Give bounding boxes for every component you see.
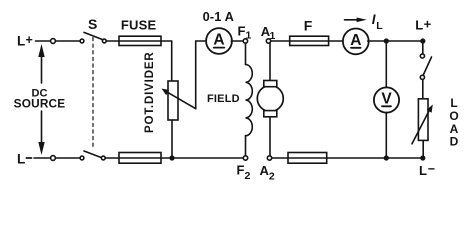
- svg-text:2: 2: [269, 171, 275, 183]
- wire fuse to pot divider: [161, 40, 172, 42]
- fuse bottom right: [288, 153, 327, 164]
- wire L- stub: [34, 157, 51, 159]
- label A2: [260, 163, 275, 182]
- wire wiper riser to ammeter: [196, 41, 207, 109]
- wire F1 to field coil: [245, 43, 247, 64]
- terminal F1: [243, 39, 247, 43]
- svg-text:F: F: [237, 163, 245, 178]
- svg-text:D: D: [450, 135, 459, 149]
- wire through fuse F: [290, 40, 329, 42]
- wire junction to voltmeter: [385, 41, 387, 88]
- switch S top pole: [80, 32, 106, 42]
- label F1: [238, 23, 252, 41]
- label IL: [372, 12, 384, 32]
- wire field coil to F2: [245, 136, 247, 156]
- junction load bottom: [420, 155, 425, 160]
- dc source arrow up: [38, 44, 44, 83]
- switch link dashed: [92, 38, 94, 150]
- svg-text:2: 2: [245, 170, 251, 182]
- wire down to pot top: [171, 41, 173, 81]
- label DC SOURCE: [14, 88, 66, 111]
- wire through top fuse: [119, 40, 161, 42]
- terminal L+ left: [51, 39, 56, 44]
- svg-text:FUSE: FUSE: [121, 17, 157, 32]
- svg-text:F: F: [304, 17, 313, 33]
- wire voltmeter to bottom rail: [385, 112, 387, 158]
- svg-text:S: S: [88, 16, 97, 32]
- svg-text:L: L: [415, 18, 423, 33]
- terminal A2: [267, 156, 271, 160]
- armature brush top: [264, 81, 277, 87]
- armature brush bottom: [264, 111, 277, 117]
- svg-text:FIELD: FIELD: [207, 93, 240, 105]
- junction voltmeter top: [384, 38, 389, 43]
- svg-text:L: L: [419, 163, 427, 178]
- load switch: [420, 54, 431, 80]
- junction voltmeter bottom: [384, 155, 389, 160]
- load arrow: [412, 105, 433, 144]
- current arrow IL: [345, 18, 367, 23]
- svg-text:+: +: [26, 33, 33, 47]
- wire switch to fuse: [106, 40, 119, 42]
- svg-text:V: V: [381, 90, 392, 107]
- terminal A1: [266, 39, 270, 43]
- fuse F top right: [290, 36, 329, 45]
- svg-text:L: L: [17, 34, 25, 49]
- field winding: [246, 65, 253, 136]
- voltmeter V: [374, 87, 399, 112]
- wire L- to switch: [55, 157, 80, 159]
- svg-text:0-1 A: 0-1 A: [203, 9, 234, 24]
- wire L+ stub: [36, 40, 51, 42]
- wire A1 to fuse F: [271, 40, 290, 42]
- svg-text:A: A: [350, 32, 361, 49]
- wire load to bottom rail: [422, 140, 424, 158]
- svg-text:+: +: [424, 17, 432, 32]
- ammeter U2 load current: [343, 29, 369, 55]
- svg-text:I: I: [372, 12, 376, 27]
- wire L+ to switch: [55, 40, 80, 42]
- load resistor: [418, 99, 428, 141]
- wire switch to load: [422, 80, 424, 99]
- label L- right: [419, 162, 435, 178]
- svg-text:L: L: [17, 151, 25, 166]
- armature M circle: [257, 86, 283, 112]
- pot wiper arrow: [162, 89, 196, 109]
- wire L+ down to switch: [422, 41, 424, 54]
- svg-text:F: F: [238, 23, 246, 38]
- wire bottom rail switch to F2: [105, 157, 243, 159]
- junction pot-bottom rail: [169, 155, 174, 160]
- label F2: [237, 163, 251, 182]
- wire pot bottom: [171, 120, 173, 158]
- terminal L- left: [51, 156, 56, 161]
- terminal F2: [243, 156, 247, 160]
- label LOAD: [449, 96, 458, 149]
- label L+ right: [415, 17, 431, 33]
- svg-text:POT.DIVIDER: POT.DIVIDER: [144, 51, 156, 133]
- pot divider resistor: [168, 81, 178, 120]
- svg-text:L: L: [450, 96, 457, 110]
- node L+ left label: [17, 33, 33, 49]
- dc source arrow down: [38, 111, 44, 155]
- wire armature to A2: [269, 117, 271, 156]
- switch S bottom pole: [80, 151, 105, 160]
- wire ammeter to F1: [231, 40, 243, 42]
- wire bottom rail A2-fuse-load: [272, 157, 423, 159]
- fuse bottom left: [119, 153, 161, 164]
- svg-text:1: 1: [246, 30, 252, 42]
- svg-text:L: L: [376, 20, 383, 32]
- fuse top left: [119, 36, 161, 45]
- svg-text:A: A: [213, 32, 224, 49]
- wire ammeter to L+ right: [368, 40, 423, 42]
- node L- left label: [17, 151, 25, 166]
- svg-text:−: −: [428, 162, 435, 176]
- label A1: [261, 24, 276, 42]
- ammeter U1 0-1A: [206, 28, 232, 54]
- wire A1 to armature: [269, 43, 271, 80]
- svg-text:SOURCE: SOURCE: [14, 97, 66, 111]
- wire fuse F to ammeter: [329, 40, 344, 42]
- junction load top: [420, 38, 425, 43]
